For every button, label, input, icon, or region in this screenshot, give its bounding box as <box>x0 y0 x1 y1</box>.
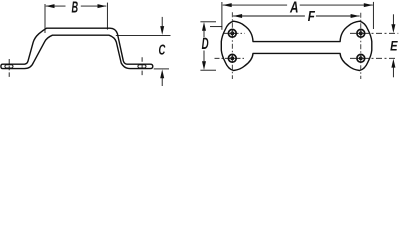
stray shoulder line left plate <box>210 26 222 28</box>
svg-text:C: C <box>159 43 166 59</box>
right top hole horizontal centerline / E top extension <box>350 32 398 34</box>
dimension A extension line left <box>221 2 223 30</box>
left top hole horizontal centerline <box>223 32 245 34</box>
dimension D bottom extension tick <box>200 69 216 71</box>
left plate bottom hole <box>228 54 236 62</box>
svg-text:D: D <box>202 34 209 53</box>
left plate vertical centerline <box>231 12 233 79</box>
right foot slot hole <box>138 65 146 68</box>
right foot centerline <box>141 57 143 75</box>
right plate vertical centerline <box>360 13 362 79</box>
dimension C bottom extension line <box>154 68 169 70</box>
svg-text:F: F <box>308 9 316 25</box>
dimension D line with arrows <box>203 30 205 62</box>
dimension C top extension line <box>116 34 171 36</box>
dimension E lower arrow <box>392 68 394 78</box>
hole center crosses <box>229 30 364 62</box>
dimension C upper arrow <box>161 17 163 27</box>
svg-text:E: E <box>390 38 398 53</box>
dimension B extension line right <box>106 3 108 30</box>
dimension A line with arrows <box>223 4 373 6</box>
right plate top hole <box>357 29 365 37</box>
dimension C lower arrow <box>161 78 163 86</box>
dimension B extension line left <box>44 4 46 33</box>
dimension A extension line right <box>372 2 374 29</box>
left plate top hole <box>228 29 236 37</box>
dimension E upper arrow <box>392 14 394 25</box>
handle side view outline <box>1 28 153 68</box>
right bottom hole horizontal centerline / E bottom extension <box>350 57 397 59</box>
left foot slot hole <box>5 65 13 68</box>
right plate bottom hole <box>357 54 365 62</box>
dimension F line with arrows <box>233 15 360 17</box>
svg-text:B: B <box>72 0 79 17</box>
dimension B line with arrows <box>46 5 107 7</box>
dimension D top extension tick <box>200 21 216 23</box>
left foot centerline <box>8 59 10 78</box>
svg-text:A: A <box>289 0 298 16</box>
left bottom hole horizontal centerline <box>215 57 245 59</box>
handle top view dog-bone outline <box>221 21 371 70</box>
